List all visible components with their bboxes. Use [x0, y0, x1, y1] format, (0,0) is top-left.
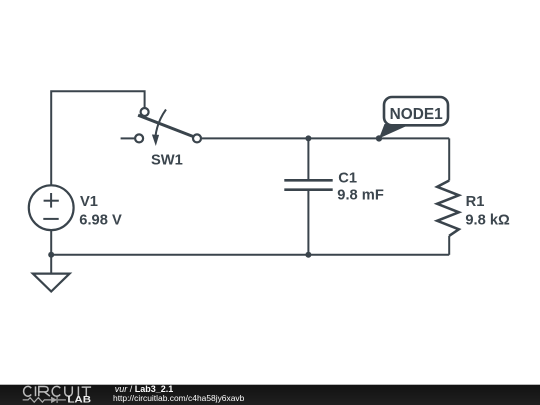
svg-text:SW1: SW1 [151, 153, 183, 169]
svg-text:C1: C1 [338, 170, 357, 186]
svg-text:9.8 mF: 9.8 mF [337, 187, 384, 203]
svg-text:9.8 kΩ: 9.8 kΩ [465, 212, 510, 228]
svg-text:http://circuitlab.com/c4ha58jy: http://circuitlab.com/c4ha58jy6xavb [113, 393, 245, 403]
svg-text:NODE1: NODE1 [390, 106, 443, 123]
svg-text:R1: R1 [466, 194, 485, 210]
svg-text:LAB: LAB [67, 395, 91, 405]
svg-text:V1: V1 [80, 194, 98, 210]
svg-text:6.98 V: 6.98 V [79, 212, 122, 228]
